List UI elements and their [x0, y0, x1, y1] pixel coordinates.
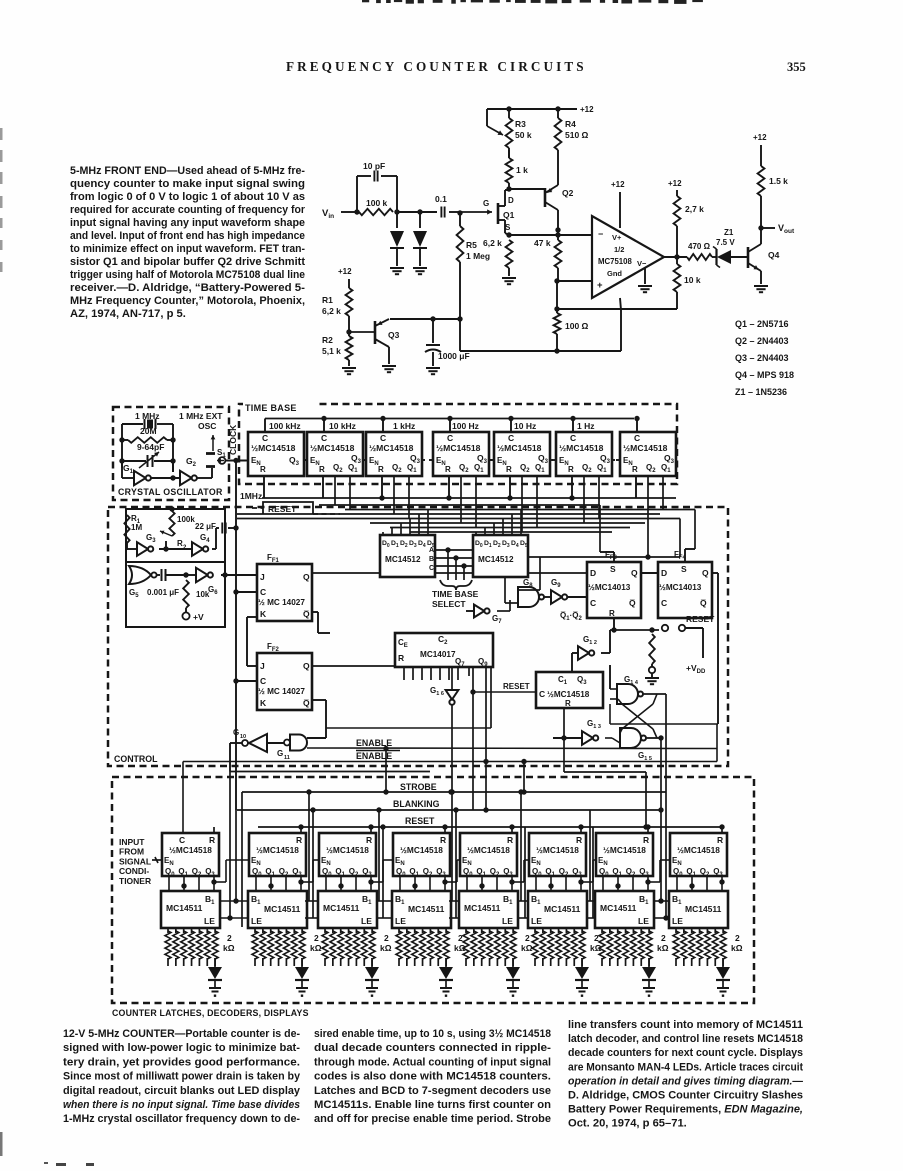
- svg-text:latch decoder, and control lin: latch decoder, and control line resets M…: [568, 1033, 803, 1045]
- svg-text:MC75108: MC75108: [598, 257, 632, 266]
- svg-text:MC14511s. Enable line turns fi: MC14511s. Enable line turns first counte…: [314, 1099, 551, 1111]
- wire enable bar down to first counter C: [182, 762, 184, 834]
- svg-text:Q: Q: [303, 661, 310, 671]
- wire G16 output to strobe: [449, 789, 454, 794]
- clock node: [233, 458, 238, 463]
- svg-text:2: 2: [661, 933, 666, 943]
- svg-text:quency counter to make input s: quency counter to make input signal swin…: [70, 178, 305, 190]
- counter U4 half MC14518 time base 3: [366, 432, 422, 476]
- svg-text:Q̅: Q̅: [303, 698, 310, 708]
- MC14017 output pins: [403, 667, 405, 680]
- transistor Q4: [747, 247, 750, 268]
- svg-text:R5: R5: [466, 240, 477, 250]
- svg-text:MC14511: MC14511: [323, 903, 360, 913]
- potentiometer R3 50k: [506, 118, 513, 148]
- svg-text:1MHz: 1MHz: [240, 491, 262, 501]
- resistor bank 2k digit 6: [534, 928, 536, 933]
- carry wire digit 6: [581, 881, 593, 883]
- op-amp output wire: [664, 256, 687, 258]
- scan artifact: left margin marks: [0, 128, 3, 140]
- svg-text:TIME BASE: TIME BASE: [432, 589, 479, 599]
- svg-text:R: R: [296, 835, 302, 845]
- svg-text:Q: Q: [303, 572, 310, 582]
- svg-text:K: K: [260, 609, 267, 619]
- svg-text:kΩ: kΩ: [731, 943, 743, 953]
- zener diode Z1: [712, 256, 717, 258]
- wire FF2 Qbar: [312, 699, 326, 701]
- verticals gap 3: [378, 810, 380, 901]
- svg-text:C: C: [661, 598, 667, 608]
- resistor bank 2k digit 1: [167, 928, 169, 933]
- svg-text:5-MHz FRONT END—Used ahead of: 5-MHz FRONT END—Used ahead of 5-MHz fre-: [70, 165, 305, 177]
- svg-text:R: R: [717, 835, 723, 845]
- svg-text:SELECT: SELECT: [432, 599, 466, 609]
- gate G15 NAND: [620, 728, 641, 748]
- svg-text:½MC14518: ½MC14518: [169, 845, 212, 855]
- svg-text:V+: V+: [612, 233, 622, 242]
- wire tap to strobe: [523, 762, 525, 793]
- clamp diode D2: [419, 212, 421, 228]
- svg-text:Q1: Q1: [503, 210, 515, 220]
- bottom rail of front end: [460, 350, 621, 352]
- svg-text:½MC14013: ½MC14013: [659, 583, 702, 592]
- svg-text:FROM: FROM: [119, 847, 144, 857]
- svg-text:MC14512: MC14512: [478, 555, 514, 564]
- svg-text:signed with low-power logic to: signed with low-power logic to minimize …: [63, 1042, 300, 1054]
- wire bias rail Q3 collector: [390, 318, 460, 320]
- wire G6 output: [221, 574, 257, 576]
- svg-text:10 Hz: 10 Hz: [514, 421, 536, 431]
- svg-text:tery drain, yet provides good: tery drain, yet provides good performanc…: [63, 1056, 300, 1068]
- latch decoder U20 MC14511 digit 1: [161, 891, 220, 928]
- counter C1 half MC14518 control: [536, 672, 603, 708]
- display counter U17 half MC14518 digit 6: [529, 833, 586, 876]
- flip-flop FF3 half MC14013: [587, 562, 641, 618]
- svg-text:receiver.—D. Aldridge, “Batter: receiver.—D. Aldridge, “Battery-Powered …: [70, 282, 305, 294]
- bus corner right to chip2 output line: [679, 519, 681, 558]
- svg-text:B: B: [429, 556, 434, 563]
- enable line G14 segment: [610, 723, 718, 725]
- carry wire digit 4: [445, 881, 457, 883]
- clock vertical line into control: [235, 506, 237, 592]
- svg-text:+12: +12: [338, 267, 352, 276]
- svg-text:through mode. Actual counting: through mode. Actual counting of input s…: [314, 1056, 551, 1068]
- right rail of oscillator: [172, 424, 174, 472]
- svg-text:2: 2: [314, 933, 319, 943]
- svg-text:C: C: [447, 433, 453, 443]
- resistor bank 2k digit 7: [601, 928, 603, 933]
- +V terminal: [182, 612, 189, 619]
- svg-text:12-V 5-MHz COUNTER—Portable co: 12-V 5-MHz COUNTER—Portable counter is d…: [63, 1028, 300, 1040]
- pot arrow R2: [160, 531, 172, 536]
- svg-text:CONDI-: CONDI-: [119, 866, 149, 876]
- wires Q pins to latch digit 1: [168, 876, 170, 891]
- svg-text:9-64pF: 9-64pF: [137, 442, 164, 452]
- reset wire into R digit 7: [647, 827, 649, 833]
- svg-text:20M: 20M: [140, 426, 157, 436]
- LED display digit 7: [648, 958, 650, 967]
- crystal Y1: [122, 423, 143, 425]
- svg-text:R: R: [440, 835, 446, 845]
- svg-text:R: R: [565, 699, 571, 708]
- svg-text:RESET: RESET: [268, 504, 297, 514]
- svg-text:R1: R1: [322, 295, 333, 305]
- svg-text:1M: 1M: [131, 523, 142, 532]
- svg-text:LE: LE: [638, 916, 649, 926]
- LED ground digit 1: [209, 987, 221, 989]
- svg-text:+12: +12: [611, 180, 625, 189]
- svg-text:codes is also done with MC1451: codes is also done with MC14518 counters…: [314, 1071, 551, 1083]
- svg-text:D. Aldridge, CMOS Counter Circ: D. Aldridge, CMOS Counter Circuitry Slas…: [568, 1090, 803, 1102]
- svg-text:FREQUENCY COUNTER CIRCUITS: FREQUENCY COUNTER CIRCUITS: [286, 59, 587, 74]
- svg-text:½MC14518: ½MC14518: [559, 443, 604, 453]
- display counter U18 half MC14518 digit 7: [596, 833, 653, 876]
- ground below Q3: [382, 365, 396, 367]
- svg-text:50 k: 50 k: [515, 130, 532, 140]
- svg-text:MC14511: MC14511: [600, 903, 637, 913]
- node 47k bottom to plus input: [554, 278, 559, 283]
- pot wiper arm R3: [486, 109, 488, 126]
- wire corner into display columns 1-2 a: [230, 771, 430, 773]
- select lines A B C between selectors: [435, 549, 473, 551]
- wire tap from enable to strobe: [385, 749, 387, 793]
- svg-text:Z1 – 1N5236: Z1 – 1N5236: [735, 387, 787, 397]
- counter U6 half MC14518 time base 5: [494, 432, 550, 476]
- verticals gap 5: [520, 792, 522, 901]
- svg-text:MC14511: MC14511: [544, 904, 581, 914]
- display counter U19 half MC14518 digit 8: [670, 833, 727, 876]
- svg-text:2: 2: [735, 933, 740, 943]
- svg-text:Battery Power Requirements, ED: Battery Power Requirements, EDN Magazine…: [568, 1104, 803, 1116]
- svg-text:0.001 μF: 0.001 μF: [147, 588, 179, 597]
- svg-text:2: 2: [384, 933, 389, 943]
- svg-text:C: C: [570, 433, 576, 443]
- svg-text:C: C: [262, 433, 268, 443]
- wire G1 out to G2 in: [151, 477, 180, 479]
- carry wire digit 2: [301, 881, 313, 883]
- reset wire into R digit 3: [370, 827, 372, 833]
- svg-text:100 Hz: 100 Hz: [452, 421, 479, 431]
- node after 100k: [394, 209, 399, 214]
- capacitor 0.1 coupling: [420, 211, 437, 213]
- resistor 100 ohm: [554, 313, 561, 334]
- svg-text:½MC14518: ½MC14518: [369, 443, 414, 453]
- svg-text:10 k: 10 k: [684, 275, 701, 285]
- svg-text:to minimize effect on input wa: to minimize effect on input waveform. FE…: [70, 243, 305, 255]
- svg-text:RESET: RESET: [405, 816, 435, 826]
- svg-text:S: S: [681, 564, 687, 574]
- data selector U9 MC14512 first: [380, 535, 435, 577]
- svg-text:+12: +12: [580, 105, 594, 114]
- switch S1 upper contact: [206, 452, 215, 455]
- data selector U10 MC14512 second: [473, 535, 528, 577]
- display counter U13 half MC14518 digit 2: [249, 833, 306, 876]
- svg-text:½MC14518: ½MC14518: [467, 845, 510, 855]
- resistor 10k pulldown: [674, 264, 681, 292]
- flip-flop FF4 half MC14013: [658, 562, 712, 618]
- resistor R2 5.1k: [346, 336, 353, 360]
- counter U5 half MC14518 time base 4: [433, 432, 489, 476]
- wire Q2 emitter node: [555, 227, 560, 232]
- ext osc arrow: [212, 435, 214, 451]
- svg-text:0.1: 0.1: [435, 194, 447, 204]
- counter U3 half MC14518 time base 2: [307, 432, 363, 476]
- enable line: [307, 747, 717, 750]
- wire FF4 S loop above: [684, 549, 686, 562]
- wire Q9 to enable bar line: [485, 700, 487, 762]
- svg-text:1 Hz: 1 Hz: [577, 421, 594, 431]
- wire plus-input node down to 100 ohm: [556, 281, 558, 313]
- resistor 47k: [555, 240, 562, 268]
- reset wire into R digit 6: [580, 827, 582, 833]
- svg-text:2,7 k: 2,7 k: [685, 204, 704, 214]
- svg-text:½MC14518: ½MC14518: [251, 443, 296, 453]
- brace time base select: [440, 580, 472, 590]
- svg-text:Q3 – 2N4403: Q3 – 2N4403: [735, 353, 789, 363]
- bus corner to FF4 S: [694, 510, 696, 550]
- svg-text:1-MHz crystal oscillator frequ: 1-MHz crystal oscillator frequency down …: [63, 1113, 300, 1125]
- resistor R4 510 ohm: [557, 109, 559, 118]
- wire G2 out to switch: [197, 477, 212, 479]
- flip-flop FF1 half MC14027: [257, 564, 312, 621]
- wire FF3 S loop above: [613, 552, 615, 562]
- svg-text:22 μF: 22 μF: [195, 522, 216, 531]
- wires Q pins to latch digit 6: [535, 876, 537, 891]
- svg-text:sired enable time, up to 10 s,: sired enable time, up to 10 s, using 3½ …: [314, 1028, 551, 1040]
- wire corner into display columns 1-2 c: [235, 810, 237, 901]
- svg-text:Z1: Z1: [724, 228, 734, 237]
- svg-text:sistor Q1 and bipolar buffer Q: sistor Q1 and bipolar buffer Q2 drive Sc…: [70, 256, 305, 268]
- resistor R5 1 Meg: [459, 213, 461, 226]
- clamp diode D1: [396, 212, 398, 228]
- svg-text:kΩ: kΩ: [380, 943, 392, 953]
- svg-text:S: S: [610, 564, 616, 574]
- svg-text:R: R: [632, 465, 638, 474]
- wire G14 inputs: [610, 688, 617, 690]
- verticals gap 4: [451, 792, 453, 901]
- resistor 1k: [508, 183, 510, 189]
- svg-text:TIONER: TIONER: [119, 876, 151, 886]
- svg-text:Oct. 20, 1974, p 65–71.: Oct. 20, 1974, p 65–71.: [568, 1118, 687, 1130]
- svg-text:C: C: [539, 689, 545, 699]
- svg-text:C: C: [590, 598, 596, 608]
- svg-text:7.5 V: 7.5 V: [716, 238, 735, 247]
- LED display digit 5: [512, 958, 514, 967]
- svg-text:J: J: [260, 572, 265, 582]
- resistor bank 2k digit 3: [324, 928, 326, 933]
- wire Vin to input node: [341, 211, 357, 213]
- svg-text:Q1 – 2N5716: Q1 – 2N5716: [735, 319, 789, 329]
- svg-text:½MC14518: ½MC14518: [536, 845, 579, 855]
- svg-text:CLOCK: CLOCK: [228, 424, 238, 455]
- svg-text:+: +: [597, 280, 603, 291]
- LED display digit 6: [581, 958, 583, 967]
- time base dashed box: [239, 404, 677, 484]
- svg-text:10: 10: [240, 734, 246, 740]
- ground below 1000uF: [426, 367, 440, 369]
- wire C1 R down and right to reset bus: [563, 708, 565, 772]
- svg-text:MC14511: MC14511: [408, 904, 445, 914]
- wire FF1 Q to FF3 D: [312, 572, 380, 574]
- latch decoder U25 MC14511 digit 6: [528, 891, 587, 928]
- svg-text:+12: +12: [668, 179, 682, 188]
- resistor bank 2k digit 4: [398, 928, 400, 933]
- wires Q pins to latch digit 2: [255, 876, 257, 891]
- resistor bank 2k digit 2: [254, 928, 256, 933]
- counter U7 half MC14518 time base 6: [556, 432, 612, 476]
- LED ground digit 7: [643, 987, 655, 989]
- capacitor 10pF feedback loop: [356, 176, 358, 212]
- inverter G6: [196, 568, 208, 582]
- svg-text:MC14511: MC14511: [166, 903, 203, 913]
- svg-text:R: R: [445, 465, 451, 474]
- +12 supply rail top: [487, 108, 577, 110]
- op-amp V- to ground: [644, 268, 646, 284]
- wire Q1 drain to node: [504, 190, 506, 196]
- capacitor 1000uF: [432, 319, 434, 343]
- svg-text:LE: LE: [502, 916, 513, 926]
- svg-text:COUNTER LATCHES, DECODERS, DIS: COUNTER LATCHES, DECODERS, DISPLAYS: [112, 1008, 309, 1018]
- wire FF2 Q to MC14017: [312, 665, 395, 667]
- verticals gap 2: [308, 792, 310, 901]
- wire corner into display columns 1-2 b: [241, 792, 243, 927]
- svg-text:6,2 k: 6,2 k: [322, 306, 341, 316]
- transistor Q2 PNP: [544, 188, 547, 207]
- svg-text:kΩ: kΩ: [657, 943, 669, 953]
- display section dashed box: [112, 777, 754, 1003]
- svg-text:MC14017: MC14017: [420, 650, 456, 659]
- scan artifact: cropped text row from previous page: [362, 0, 369, 2]
- svg-text:1 Meg: 1 Meg: [466, 251, 490, 261]
- svg-text:R: R: [568, 465, 574, 474]
- svg-text:½MC14518: ½MC14518: [256, 845, 299, 855]
- gating oscillator sub-box lower: [126, 562, 225, 627]
- svg-text:100 Ω: 100 Ω: [565, 321, 589, 331]
- svg-text:R3: R3: [515, 119, 526, 129]
- svg-text:R: R: [507, 835, 513, 845]
- carry wire digit 5: [512, 881, 524, 883]
- svg-text:Q̅: Q̅: [303, 609, 310, 619]
- svg-text:Q̅: Q̅: [629, 598, 636, 608]
- svg-text:R: R: [260, 465, 266, 474]
- svg-text:R: R: [378, 465, 384, 474]
- display counter U16 half MC14518 digit 5: [460, 833, 517, 876]
- wire FF3 Q to FF4 D: [641, 572, 658, 574]
- reset wire into R digit 1: [213, 827, 215, 833]
- resistor bank 2k digit 5: [465, 928, 467, 933]
- svg-text:470 Ω: 470 Ω: [688, 242, 711, 251]
- svg-text:S: S: [505, 223, 511, 232]
- cross coupling G14 G15: [643, 693, 666, 695]
- svg-text:1 kHz: 1 kHz: [393, 421, 415, 431]
- label RESET small dashed box: [263, 502, 313, 514]
- wire EN chain entry: [246, 460, 248, 462]
- svg-text:½MC14518: ½MC14518: [310, 443, 355, 453]
- svg-text:CONTROL: CONTROL: [114, 754, 158, 764]
- svg-text:R: R: [209, 835, 215, 845]
- resistor 6.2k source: [506, 240, 513, 268]
- svg-text:G: G: [277, 749, 283, 758]
- svg-text:510 Ω: 510 Ω: [565, 130, 589, 140]
- reset wire into R digit 4: [444, 827, 446, 833]
- svg-text:½MC14518: ½MC14518: [326, 845, 369, 855]
- latch decoder U21 MC14511 digit 2: [248, 891, 307, 928]
- svg-text:R: R: [609, 609, 615, 618]
- counter U8 half MC14518 time base 7: [620, 432, 676, 476]
- svg-text:kΩ: kΩ: [310, 943, 322, 953]
- svg-text:½MC14518: ½MC14518: [603, 845, 646, 855]
- wire FF1 Qbar loop: [312, 611, 318, 613]
- wires Q pins to latch digit 4: [399, 876, 401, 891]
- svg-text:½ MC 14027: ½ MC 14027: [258, 687, 305, 696]
- latch B1 chain line: [219, 900, 248, 902]
- wire clock to FF1 C: [236, 591, 257, 593]
- svg-text:½MC14518: ½MC14518: [623, 443, 668, 453]
- svg-text:C: C: [634, 433, 640, 443]
- svg-text:input signal having any input: input signal having any input waveform s…: [70, 217, 305, 229]
- svg-text:MC14511: MC14511: [685, 904, 722, 914]
- svg-text:TIME BASE: TIME BASE: [245, 403, 297, 413]
- display counter U15 half MC14518 digit 4: [393, 833, 450, 876]
- capacitor 0.001uF: [157, 574, 160, 576]
- crystal oscillator dashed box: [113, 407, 229, 500]
- wire Q1 source node line to comparator minus input: [505, 233, 509, 235]
- ground below 6.2k: [502, 277, 516, 279]
- svg-text:R: R: [319, 465, 325, 474]
- wires Q pins to latch digit 7: [602, 876, 604, 891]
- svg-text:10 kHz: 10 kHz: [329, 421, 356, 431]
- verticals from Q pins to bus: [334, 476, 336, 505]
- svg-text:STROBE: STROBE: [400, 782, 437, 792]
- svg-text:100k: 100k: [177, 515, 195, 524]
- wires Q pins to latch digit 8: [676, 876, 678, 891]
- resistor bank 2k digit 8: [675, 928, 677, 933]
- svg-text:digital readout, circuit blank: digital readout, circuit blanks out LED …: [63, 1085, 301, 1097]
- resistor 100k input: [359, 209, 393, 215]
- node Q3 base: [346, 329, 351, 334]
- svg-text:½MC14518: ½MC14518: [497, 443, 542, 453]
- svg-text:2: 2: [227, 933, 232, 943]
- svg-text:C: C: [260, 587, 266, 597]
- latch decoder U27 MC14511 digit 8: [669, 891, 728, 928]
- wire FF1 K input: [247, 616, 257, 618]
- node R5 top: [457, 210, 462, 215]
- transistor Q3 PNP: [349, 331, 375, 333]
- wires Q pins to latch digit 3: [325, 876, 327, 891]
- svg-text:MC14511: MC14511: [264, 904, 301, 914]
- op-amp U1 1/2 MC75108: [592, 216, 664, 298]
- svg-text:5,1 k: 5,1 k: [322, 346, 341, 356]
- wire 10k bottom to plus node: [557, 308, 677, 310]
- reset wire into R digit 2: [300, 827, 302, 833]
- LED ground digit 4: [440, 987, 452, 989]
- node Vout: [758, 225, 763, 230]
- wire G15 output entry: [658, 807, 663, 812]
- wire gate arrow into Q1: [460, 211, 492, 213]
- reset network below FF3 FF4: [613, 618, 615, 630]
- svg-text:LE: LE: [395, 916, 406, 926]
- svg-text:100 kHz: 100 kHz: [269, 421, 301, 431]
- label TIME BASE: [243, 400, 316, 412]
- svg-text:1/2: 1/2: [614, 245, 624, 254]
- svg-text:when there is no input signal.: when there is no input signal. Time base…: [63, 1099, 300, 1111]
- flip-flop FF2 half MC14027: [257, 653, 312, 710]
- wire G14 output to strobe corner: [665, 694, 667, 792]
- svg-text:+V: +V: [193, 612, 204, 622]
- transistor Q1 JFET: [497, 203, 500, 224]
- svg-text:R: R: [366, 835, 372, 845]
- LED display digit 2: [301, 958, 303, 967]
